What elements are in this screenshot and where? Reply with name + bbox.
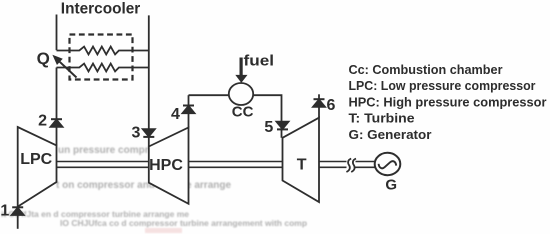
svg-text:1: 1 — [0, 203, 9, 220]
svg-text:Cc: Combustion chamber: Cc: Combustion chamber — [349, 62, 503, 77]
svg-text:T: T — [297, 157, 307, 174]
svg-text:Intercooler: Intercooler — [61, 1, 141, 18]
svg-text:LPC: LPC — [20, 151, 52, 168]
svg-text:Q: Q — [37, 49, 50, 68]
svg-text:fuel: fuel — [244, 53, 275, 70]
svg-text:G: Generator: G: Generator — [349, 127, 432, 142]
svg-text:2: 2 — [38, 113, 47, 130]
svg-text:G: G — [385, 176, 397, 193]
svg-text:un pressure compr: un pressure compr — [58, 145, 149, 156]
svg-text:LPC: Low pressure compressor: LPC: Low pressure compressor — [349, 78, 536, 93]
svg-text:HPC: High pressure compressor: HPC: High pressure compressor — [349, 94, 547, 109]
svg-text:3: 3 — [132, 125, 141, 142]
svg-text:HPC: HPC — [149, 157, 183, 174]
svg-text:T: Turbine: T: Turbine — [349, 111, 415, 126]
svg-text:5: 5 — [264, 119, 273, 136]
svg-text:t on compressor and turbine ar: t on compressor and turbine arrange — [56, 180, 231, 191]
svg-text:4: 4 — [171, 106, 180, 123]
svg-text:6: 6 — [327, 97, 336, 114]
svg-text:lO CHJUfca co d compressor tur: lO CHJUfca co d compressor turbine arran… — [60, 218, 307, 228]
svg-text:CC: CC — [232, 104, 254, 121]
